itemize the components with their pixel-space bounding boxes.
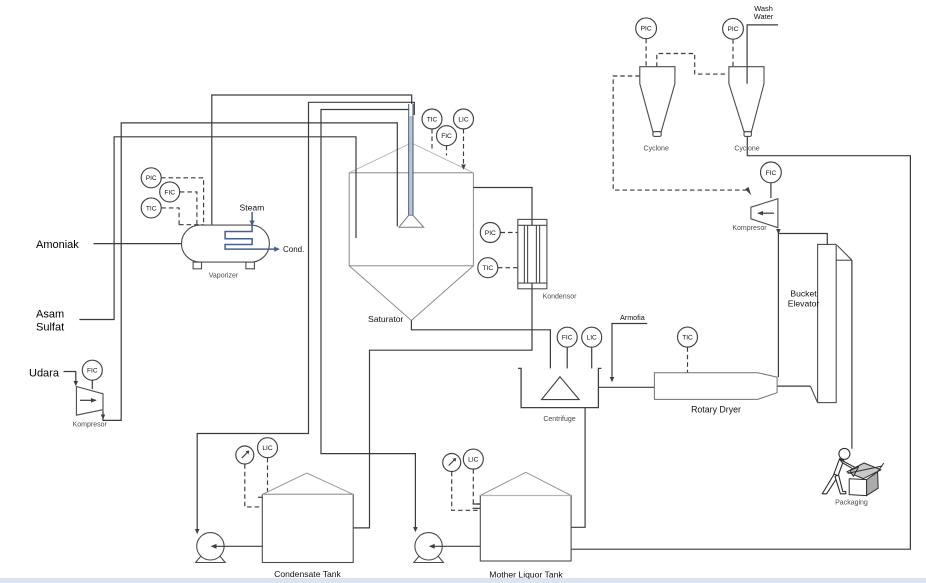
- instrument dashes FIC saturator: [446, 146, 448, 156]
- instrument TIC saturator: [422, 109, 442, 129]
- svg-text:Armofia: Armofia: [620, 313, 645, 322]
- wire centrifuge bottoms to mother liquor tank: [571, 408, 585, 528]
- svg-text:Condensate Tank: Condensate Tank: [274, 569, 341, 579]
- funnel saturator dip tube: [399, 215, 424, 227]
- wire kompresor-R discharge down to dryer: [777, 229, 779, 377]
- svg-text:Steam: Steam: [240, 203, 265, 213]
- svg-text:FIC: FIC: [164, 189, 175, 196]
- wire saturator bottom to centrifuge: [411, 321, 550, 369]
- svg-text:Amoniak: Amoniak: [36, 239, 79, 251]
- svg-text:FIC: FIC: [441, 133, 452, 140]
- svg-text:Udara: Udara: [29, 368, 60, 380]
- svg-text:Bucket: Bucket: [790, 289, 817, 299]
- svg-text:LIC: LIC: [587, 335, 597, 342]
- vessel saturator cone: [349, 266, 473, 321]
- wire wash water dip: [746, 67, 748, 84]
- svg-text:Kompresor: Kompresor: [73, 422, 108, 429]
- wire vaporizer vapor line: [212, 95, 412, 225]
- wire asam sulfat feed riser: [79, 137, 356, 320]
- coil steam serpentine: [225, 224, 275, 249]
- wire armofia inlet: [612, 324, 647, 378]
- svg-text:Sulfat: Sulfat: [36, 322, 64, 334]
- instrument stem FIC kompresor-R: [770, 183, 772, 198]
- node condensate tank nozzle: [258, 496, 267, 498]
- svg-text:TIC: TIC: [682, 335, 693, 342]
- svg-text:Saturator: Saturator: [368, 314, 403, 324]
- steam arrow into vaporizer: [251, 212, 253, 222]
- svg-text:Cond.: Cond.: [283, 245, 304, 254]
- svg-text:Kondensor: Kondensor: [543, 293, 578, 300]
- instrument stem FIC kompresor-L: [91, 380, 93, 389]
- instrument FIC centrifuge: [557, 327, 577, 347]
- svg-text:FIC: FIC: [562, 335, 573, 342]
- instrument LIC condensate tank: [258, 438, 278, 458]
- svg-text:Vaporizer: Vaporizer: [209, 272, 239, 279]
- heat-exchanger kondensor: [518, 219, 547, 288]
- svg-text:FIC: FIC: [87, 368, 98, 375]
- wire amoniak feed: [94, 243, 182, 245]
- tank condensate body: [262, 494, 353, 562]
- vessel saturator roof: [349, 143, 473, 173]
- wire centrifuge to rotary dryer: [598, 386, 654, 388]
- instrument dashes gauge condensate tank: [245, 464, 262, 507]
- svg-text:Rotary Dryer: Rotary Dryer: [691, 405, 741, 415]
- svg-text:LIC: LIC: [262, 445, 272, 452]
- dryer rotary dryer: [654, 373, 777, 400]
- centrifuge cone: [542, 377, 580, 400]
- wire mother liquor tank suction: [433, 545, 481, 547]
- node mother liquor tank nozzles: [473, 503, 481, 505]
- svg-text:Mother Liquor Tank: Mother Liquor Tank: [489, 570, 563, 580]
- figure packaging person: [822, 448, 858, 493]
- instrument stem TIC dryer: [687, 347, 689, 373]
- conveyor bucket elevator front: [818, 244, 837, 402]
- instrument stem FIC centrifuge: [566, 347, 568, 368]
- wire dashed cyclone interconnect: [657, 54, 726, 75]
- svg-text:PIC: PIC: [146, 175, 157, 182]
- compressor kompresor-R: [751, 199, 778, 228]
- svg-text:Cyclone: Cyclone: [644, 146, 669, 153]
- cyclone left: [640, 67, 675, 132]
- vessel saturator body: [349, 173, 473, 266]
- wire kondensor to condensate tank: [353, 289, 532, 528]
- instrument dashes LIC mother liquor tank: [473, 469, 480, 504]
- vessel vaporizer: [182, 225, 270, 262]
- instrument dashes LIC saturator: [463, 129, 465, 166]
- instrument PIC cyclone-R: [723, 18, 744, 39]
- conveyor bucket elevator foot: [810, 386, 817, 403]
- instrument FIC kompresor-L: [82, 360, 102, 380]
- instrument dashes PIC vaporizer: [161, 178, 204, 225]
- svg-text:PIC: PIC: [641, 26, 652, 33]
- instrument TIC vaporizer: [141, 198, 161, 218]
- instrument PIC cyclone-L: [636, 18, 657, 39]
- wire dryer to bucket elevator: [777, 385, 810, 387]
- wire condensate tank suction: [215, 545, 263, 547]
- centrifuge body: [518, 368, 601, 407]
- svg-text:TIC: TIC: [427, 116, 438, 123]
- svg-text:Water: Water: [754, 12, 774, 21]
- cyclone right: [729, 67, 764, 132]
- wire mother liquor recycle: [321, 110, 415, 528]
- pump mother liquor: [414, 553, 444, 563]
- svg-text:PIC: PIC: [728, 26, 739, 33]
- compressor kompresor-L: [76, 387, 103, 416]
- instrument dashes TIC kondensor: [498, 267, 518, 269]
- instrument dashes PIC kondensor: [501, 232, 518, 234]
- svg-text:Elevator: Elevator: [788, 299, 820, 309]
- instrument LIC saturator: [454, 109, 474, 129]
- instrument stem PIC cyclone-R: [732, 39, 734, 66]
- wire recycle gas loop: [571, 136, 910, 549]
- tank mother liquor body: [480, 496, 571, 562]
- instrument stem LIC centrifuge: [591, 347, 593, 368]
- bottom band: [0, 578, 926, 583]
- pipe saturator dip tube blue: [409, 116, 412, 215]
- wire kompresor-L discharge riser: [103, 123, 397, 421]
- instrument PIC vaporizer: [141, 168, 161, 188]
- pump condensate: [196, 553, 226, 563]
- instrument dashes TIC saturator: [431, 129, 433, 151]
- instrument stem PIC cyclone-L: [645, 39, 647, 67]
- instrument dashes FIC vaporizer: [180, 192, 197, 225]
- instrument TIC kondensor: [478, 258, 498, 278]
- instrument LIC centrifuge: [582, 327, 602, 347]
- wire saturator to kondensor: [473, 188, 532, 220]
- instrument dashes LIC condensate tank: [262, 458, 267, 497]
- svg-text:TIC: TIC: [146, 205, 157, 212]
- instrument FIC kompresor-R: [761, 162, 782, 183]
- svg-text:Packaging: Packaging: [835, 500, 868, 507]
- svg-text:Cyclone: Cyclone: [734, 146, 759, 153]
- svg-text:LIC: LIC: [468, 457, 478, 464]
- svg-text:PIC: PIC: [485, 230, 496, 237]
- wire dashed cyclone to kompresor-R: [613, 76, 746, 190]
- wire wash water: [747, 25, 778, 67]
- wire udara feed: [64, 372, 76, 382]
- svg-text:Kompresor: Kompresor: [732, 225, 767, 232]
- instrument PIC kondensor: [480, 223, 500, 243]
- instrument TIC dryer: [678, 327, 698, 347]
- instrument dashes gauge mother liquor tank: [452, 472, 481, 511]
- wire kompresor-R to elevator top: [778, 234, 827, 245]
- instrument FIC saturator: [437, 126, 457, 146]
- instrument LIC mother liquor tank: [463, 449, 483, 469]
- conveyor bucket elevator back panel: [836, 259, 852, 261]
- instrument FIC vaporizer: [160, 182, 180, 202]
- tank mother liquor roof: [480, 472, 571, 495]
- wire elevator outlet to packaging: [851, 260, 853, 449]
- svg-text:TIC: TIC: [482, 265, 493, 272]
- svg-text:Asam: Asam: [36, 309, 64, 321]
- instrument gauge condensate tank: [236, 446, 254, 464]
- tank condensate roof: [262, 473, 353, 494]
- instrument dashes vaporizer header: [179, 224, 204, 226]
- instrument gauge mother liquor tank: [443, 454, 461, 472]
- svg-text:FIC: FIC: [766, 170, 777, 177]
- box packaging carton: [847, 463, 884, 496]
- svg-text:Centrifuge: Centrifuge: [543, 416, 575, 423]
- instrument dashes TIC vaporizer: [161, 208, 179, 225]
- wire condensate recycle: [197, 102, 414, 529]
- svg-text:LIC: LIC: [458, 116, 468, 123]
